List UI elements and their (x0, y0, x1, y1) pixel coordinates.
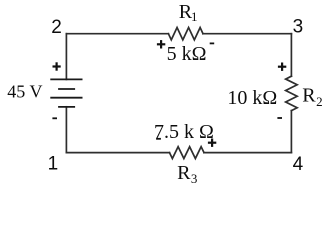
polarity marks (52, 40, 286, 147)
svg-text:2: 2 (316, 94, 323, 109)
battery plate short (58, 88, 75, 90)
battery B1 45 V (50, 79, 82, 107)
svg-text:45 V: 45 V (7, 82, 42, 102)
wire top-right segment (R1 to node 3) (203, 33, 291, 35)
svg-text:R: R (177, 162, 191, 184)
battery - sign (52, 117, 57, 119)
svg-text:3: 3 (191, 171, 198, 186)
wire right upper (node 3 to R2) (290, 34, 292, 76)
svg-text:5 kΩ: 5 kΩ (167, 43, 207, 65)
battery plate long top (50, 78, 82, 80)
R1 - sign (right) (210, 42, 215, 44)
wire top-left segment (node 2 to R1) (66, 33, 168, 35)
wire bottom-left segment (R3 to node 1) (66, 152, 169, 154)
R2 + sign (top) (278, 63, 286, 71)
resistor R1 (168, 28, 203, 40)
svg-text:4: 4 (293, 154, 304, 175)
battery plate long (50, 97, 82, 99)
wire left upper (node 2 to battery plus) (65, 34, 67, 80)
wire left lower (battery minus to node 1) (65, 107, 67, 153)
wire bottom-right segment (node 4 to R3) (204, 152, 291, 154)
resistor R2 (286, 76, 298, 110)
R2 - sign (bottom) (277, 117, 282, 119)
R3 + sign (right) (208, 139, 216, 147)
svg-text:3: 3 (293, 16, 304, 37)
resistor R3 (170, 147, 205, 159)
battery plate short bottom (58, 106, 75, 108)
R1 + sign (left) (157, 40, 165, 48)
R3 - sign (left) (156, 138, 161, 140)
svg-text:R: R (302, 85, 316, 107)
svg-text:1: 1 (191, 9, 198, 24)
wire right lower (R2 to node 4) (290, 111, 292, 153)
svg-text:2: 2 (51, 17, 62, 38)
battery + sign (53, 62, 61, 70)
svg-text:7.5 k Ω: 7.5 k Ω (154, 121, 214, 143)
svg-text:1: 1 (48, 154, 59, 175)
svg-text:10 kΩ: 10 kΩ (227, 87, 277, 109)
